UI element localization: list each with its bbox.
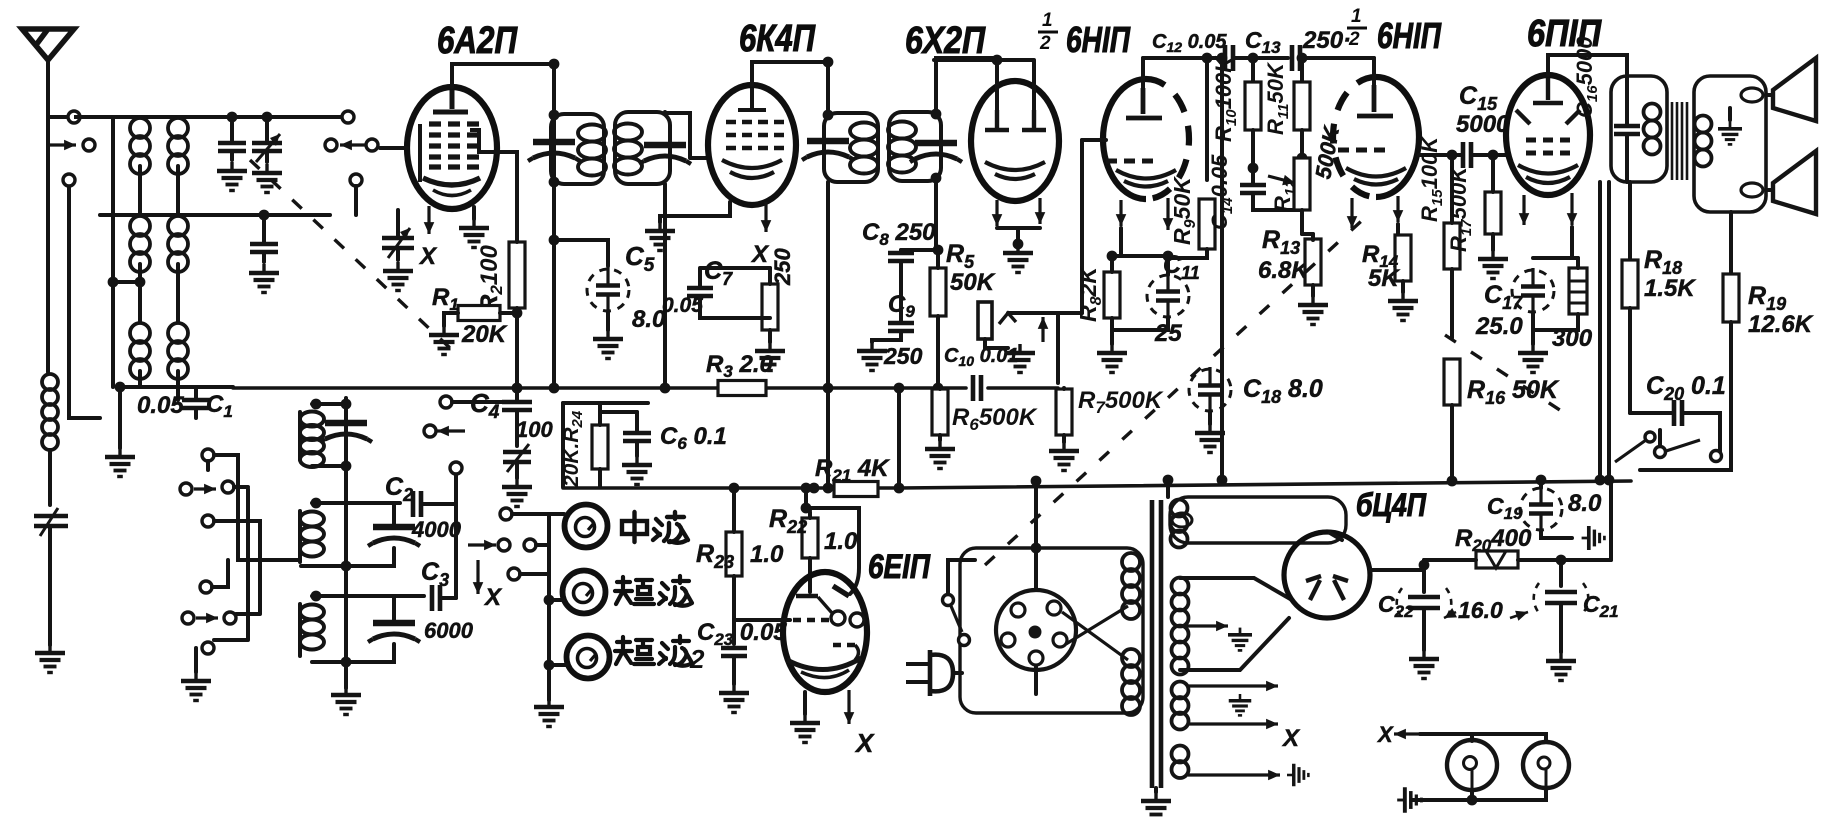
resistor R22 [802,518,818,558]
ground R14 [1388,292,1418,321]
junction [1419,560,1430,571]
wire [1728,108,1732,120]
wire C2 out [423,475,456,504]
ground sideways [1287,764,1308,787]
ground R8 [1097,344,1127,373]
wire oscillator bus [344,398,348,688]
filament winding 6.3V [1172,682,1189,730]
svg-text:250: 250 [770,248,795,286]
dashed gang line [250,160,450,348]
junction [931,173,942,184]
voice coil loop a [1741,88,1763,102]
tube V4 half 6Н1П [1103,79,1146,199]
svg-text:R15100K: R15100K [1417,135,1446,222]
svg-text:R16 50K: R16 50K [1467,376,1560,408]
wire [561,403,565,487]
svg-text:12.6K: 12.6K [1748,311,1814,338]
ground band switch [534,698,564,727]
junction j-R2 [512,383,523,394]
oscillator coil L6 [300,605,324,650]
wire V1 plate to IF1 [452,64,554,87]
terminal [424,425,436,437]
IF transformer T1 can b [615,112,670,184]
wire [1166,480,1170,497]
junction [549,235,560,246]
junction [262,112,273,123]
resistor R24 [592,425,608,469]
junction [933,245,944,256]
phono jack pin [978,302,992,339]
svg-text:6К4П: 6К4П [739,18,816,60]
ground C6 [622,456,652,485]
junction [1163,475,1174,486]
arrow V4 a [1119,200,1122,226]
junction [931,109,942,120]
wire [472,207,476,219]
capacitor C9 [888,323,914,331]
wire [48,450,52,505]
resistor R21 [834,482,878,497]
variable capacitor (gang) with arrow [382,238,414,248]
wire [600,410,637,414]
junction [549,59,560,70]
ground antenna [35,644,65,673]
junction [933,383,944,394]
tube V2 6К4П [708,85,796,205]
wire [69,187,100,418]
wire R9 top [1205,58,1209,180]
junction [227,112,238,123]
capacitor C1 [182,400,210,408]
svg-text:1: 1 [1351,6,1362,27]
padding capacitor [250,244,278,252]
resistor R15 [1444,223,1460,269]
arrow V6 b [1570,193,1573,225]
junction [801,483,812,494]
ground switch [181,672,211,701]
ground R17 [1478,250,1508,279]
wire [113,117,140,282]
wire [120,385,233,389]
wire [111,282,115,387]
arrow band select [194,487,216,490]
capacitor C8 [888,253,914,261]
junction [823,110,834,121]
wire C23 bottom [732,656,736,684]
ground C23 [719,684,749,713]
svg-text:X: X [854,728,875,758]
junction [660,383,671,394]
wire R18 bottom [1628,308,1632,413]
svg-text:X: X [1281,725,1301,752]
junction [1447,476,1458,487]
ground V2 cathode [755,342,785,371]
coil T1b [614,124,642,175]
coil T1a [578,125,606,176]
svg-text:6Х2П: 6Х2П [905,20,986,62]
tube V1 6А2П [407,87,497,209]
junction [1488,150,1499,161]
terminal [202,449,214,461]
trimmer capacitor in T2b [910,143,962,162]
junction [549,177,560,188]
terminal [180,483,192,495]
terminal [959,635,970,646]
wire bus y215 [100,213,330,217]
wire C20 [1630,413,1720,452]
svg-text:R950K: R950K [1169,176,1199,245]
terminal [450,462,462,474]
ground C4 trimmer [502,478,532,507]
wire L4 frame [300,404,346,466]
arrow V2 [764,202,767,232]
wire [1609,480,1613,560]
wire V2 cathode-g [660,202,730,222]
tube V4 internals [1126,88,1162,118]
junction [1556,555,1567,566]
junction [894,483,905,494]
junction [311,399,322,410]
svg-text:1: 1 [1042,10,1053,31]
ground [217,162,247,191]
tube V8 internals [1310,580,1344,600]
wire [934,58,995,62]
wire R7 [1062,388,1066,442]
resistor R16 [1444,359,1460,405]
resistor R14 [1395,235,1411,281]
wire R22 [806,488,810,592]
tube V2 internals [738,88,766,110]
wire [1208,412,1212,424]
capacitor C7 [687,288,713,296]
wire [606,312,610,330]
arrow pot wiper R7 [1041,317,1044,342]
ground R7 [1049,442,1079,471]
output transformer primary coil [1644,104,1661,155]
ground C5 [593,330,623,359]
junction [1107,251,1118,262]
arrow V5 b [1396,196,1399,222]
RF coil L1a [130,118,150,174]
wire screen line x1600 [1598,182,1602,480]
ground sideways C19 [1582,526,1605,550]
resistor R18 [1622,260,1638,308]
capacitor C4 [502,402,532,410]
resistor R13 [1305,239,1321,285]
svg-text:6НIП: 6НIП [1377,15,1442,56]
transformer primary winding a [1122,553,1140,619]
wire [663,184,667,388]
wire R24 leads [598,403,602,487]
svg-text:C18 8.0: C18 8.0 [1243,375,1323,407]
IF transformer T2 can b [889,112,941,181]
terminal [202,642,214,654]
wire R18 top [1628,182,1632,260]
junction [801,503,812,514]
ground C9 [857,342,887,371]
ground filament [1229,694,1252,715]
antenna [22,29,74,60]
terminal [943,595,954,606]
wire switch b [214,487,248,640]
capacitor C19 [1520,486,1562,532]
junction [135,277,146,288]
wire C14 [1253,168,1302,210]
wire [396,210,400,260]
junction [823,483,834,494]
terminal [524,539,536,551]
wire C11 loop [1112,256,1168,330]
wire HV to rectifier [1180,578,1292,670]
wire rail to primary box [1034,481,1038,548]
ground V1 [459,219,489,248]
ground C22 [1409,650,1439,679]
svg-text:6.8K: 6.8K [1258,257,1310,284]
wire [515,462,519,478]
wire [563,401,648,405]
arrow V4 b [1166,198,1169,230]
ground R1 [429,326,459,355]
wire [1422,608,1426,650]
wire [803,692,807,714]
ground V2 [645,222,675,251]
wire [1154,788,1158,792]
junction [259,210,270,221]
label tube 1/2 6Н1П second [1348,6,1362,50]
wire [265,117,269,162]
ground center tap [1228,628,1252,651]
dashed gang line 2 [985,215,1368,565]
wire R19 bottom [1640,322,1731,470]
wire [118,387,122,448]
terminal [498,539,510,551]
junction [115,382,126,393]
tube V6 internals [1533,78,1563,103]
svg-text:50K: 50K [950,269,996,296]
high voltage winding [1172,578,1189,675]
arrow V3 a [995,200,998,226]
junction [1536,475,1547,486]
terminal A3 [63,174,75,186]
wire [262,215,266,262]
oscillator coil L4 [300,412,324,468]
HT winding to rectifier filament [1171,500,1188,548]
junction [549,110,560,121]
capacitor C22 [1408,597,1440,608]
wire R10 top [1251,58,1255,82]
trimmer capacitor band3 [368,623,420,642]
wire B- rail y488 [563,481,1631,488]
wire screen dropper [552,64,556,388]
svg-text:R6500K: R6500K [952,404,1038,434]
wire [1412,798,1472,802]
trimmer capacitor [218,143,246,151]
wires band jacks [512,514,564,574]
RF coil L3a [130,323,150,379]
junction [549,383,560,394]
svg-text:C165000: C165000 [1572,36,1601,118]
junction [1202,53,1213,64]
capacitor C17 [1512,268,1554,314]
wire switch [948,560,975,594]
tube V8 6Ц4П rectifier [1284,532,1370,618]
terminal [508,568,520,580]
junction [512,308,523,319]
antenna coupling coil L0 [42,374,58,450]
junction [1163,251,1174,262]
tube V3 6Х2П [971,81,1059,201]
junction [311,591,322,602]
resistor R19 [1723,274,1739,322]
svg-text:6ЕIП: 6ЕIП [868,548,931,586]
svg-text:5K: 5K [1368,265,1400,292]
ground C18 [1195,424,1225,453]
wire coil column b [176,117,180,400]
wire switch c [214,521,260,614]
wire R17 [1491,155,1495,250]
wire C22 top [1422,560,1426,592]
wire [500,311,517,315]
arrow pilot [1188,773,1280,776]
transformer primary winding b [1122,649,1140,715]
svg-text:R2100: R2100 [476,244,506,312]
wire R1 left [444,313,458,326]
trimmer capacitor band1 padding [320,423,372,442]
trimmer capacitor in T1b [639,145,691,164]
svg-text:2: 2 [689,644,705,674]
arrow X gang [476,560,479,594]
IF transformer T2 can a [824,113,878,182]
band jack MW ring [565,505,608,548]
svg-text:6000: 6000 [424,618,474,643]
wire T1b to V2 grid [665,112,707,158]
svg-text:X: X [418,243,438,270]
capacitor C15 [1463,142,1471,168]
svg-text:X: X [1376,722,1394,747]
arrow [468,543,496,546]
terminal [500,508,512,520]
wire [194,648,198,672]
series capacitor in antenna lead [34,516,68,526]
wire R2 leads [493,152,517,388]
svg-text:1.5K: 1.5K [1644,275,1696,302]
wire V4 grid in [1082,138,1106,142]
svg-text:0.05: 0.05 [137,392,184,419]
ground [383,262,413,291]
arrow V5 a [1350,198,1353,228]
wire C1 leads [194,387,198,418]
arrow V7 [847,690,850,724]
wire B+ x1609 [1607,182,1611,480]
junction [341,657,352,668]
terminal [325,139,337,151]
wire C6 [635,412,639,456]
wire trimmer3 [346,596,394,662]
tube V5 internals [1357,85,1393,116]
svg-text:6НIП: 6НIП [1066,19,1131,60]
resistor R9 [1199,199,1215,249]
junction [809,483,820,494]
junction [1217,53,1228,64]
band jack SW2 ring [567,636,610,679]
svg-text:C23 0.05: C23 0.05 [697,619,787,649]
resistor R6 [932,389,948,435]
wire plate route [806,508,859,594]
resistor R23 [726,532,742,576]
wire lamps bottom [1472,788,1546,800]
resistor R7 [1056,389,1072,435]
wire switch a [214,455,300,560]
wire V4 grid line [1080,140,1084,313]
arrow filament a [1188,684,1278,687]
junction [1467,795,1478,806]
capacitor C3 [432,585,440,611]
terminal C4 [440,396,452,408]
svg-text:100: 100 [516,417,553,442]
wire [230,117,234,160]
output transformer core [1672,102,1687,180]
wire y58 [1143,56,1288,60]
wire V6 top [1548,55,1627,75]
junction [1217,475,1228,486]
ground C21 [1546,652,1576,681]
terminal [202,515,214,527]
junction [311,498,322,509]
junction [544,660,555,671]
capacitor C21 [1545,592,1577,603]
output transformer can [1611,76,1667,182]
wire C16 leads [1625,76,1629,182]
capacitor C5 [587,267,629,313]
terminal [1711,451,1722,462]
svg-text:16.0: 16.0 [1458,597,1503,623]
wire jack sleeve [985,339,1008,348]
resistor R8 [1104,272,1120,318]
resistor R3 [718,381,766,396]
svg-text:R1150K: R1150K [1263,61,1292,135]
dashed gang line 3 [1445,335,1572,418]
tube V7 6Е1П [783,572,867,692]
arrow filament b [1188,722,1278,725]
terminal [222,481,234,493]
capacitor C12 [1225,45,1233,71]
voice coil loop b [1741,183,1763,197]
wire R23 [732,488,736,598]
wire R5 leads [936,250,940,388]
junction [1248,53,1259,64]
pilot winding [1172,746,1189,779]
selector cross wires [1062,606,1128,660]
wire y58 b [1302,56,1374,60]
junction [1031,543,1042,554]
wire V1 grid [380,146,407,150]
junction [544,595,555,606]
terminal A1 [68,111,80,123]
wire [1302,232,1313,236]
wire AVC dropper x828 [826,182,830,488]
label tube 1/2 6Н1П first [1039,10,1053,54]
junction [108,277,119,288]
wire [897,388,901,488]
junction [1248,163,1259,174]
junction [1031,476,1042,487]
wire jack to grid [1008,311,1082,315]
junction [1297,153,1308,164]
tube V3 internals [985,110,1046,130]
terminal [1655,447,1666,458]
wire [206,461,210,470]
trimmer capacitor band2 [368,527,420,546]
